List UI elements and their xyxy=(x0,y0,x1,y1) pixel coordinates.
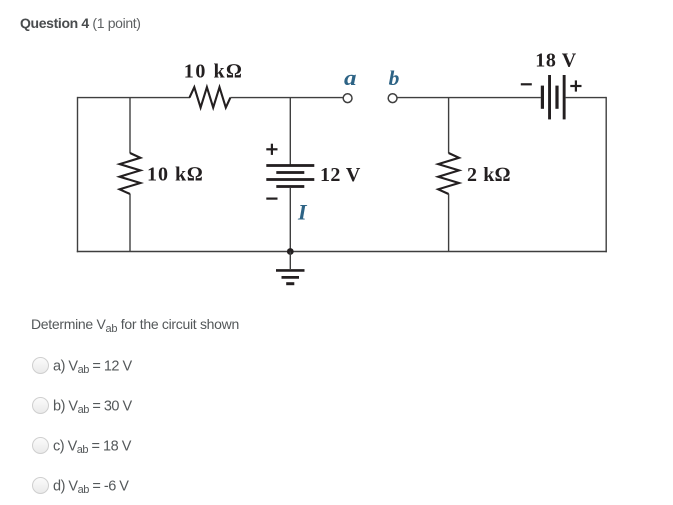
wire 2kOhm branch upper xyxy=(448,98,450,154)
svg-text:12 V: 12 V xyxy=(320,164,361,186)
resistor 10 kOhm (left branch, vertical) xyxy=(120,153,141,194)
resistor 2 kOhm (vertical) xyxy=(438,153,459,194)
node b label xyxy=(389,66,400,90)
battery 18 V (horizontal, four plates) xyxy=(541,75,566,119)
resistor 10 kOhm (top, horizontal) xyxy=(190,87,231,107)
wire 12V battery branch lower xyxy=(289,188,291,252)
wire right rail xyxy=(605,97,607,252)
node a label xyxy=(344,65,357,90)
node b terminal (open circle) xyxy=(388,94,397,103)
wire from 18V battery to top-right corner xyxy=(566,97,607,99)
wire ground stub xyxy=(289,252,291,270)
current label I xyxy=(297,200,308,225)
wire inner-left branch upper xyxy=(129,98,131,154)
svg-text:18 V: 18 V xyxy=(535,50,576,72)
value label 12 V xyxy=(320,164,361,186)
value label 10 kOhm (left resistor) xyxy=(147,164,203,186)
wire from top resistor to node a xyxy=(230,97,343,99)
wire left rail xyxy=(77,97,79,252)
value label 2 kOhm xyxy=(467,164,511,186)
svg-text:10 kΩ: 10 kΩ xyxy=(184,61,243,83)
ground symbol xyxy=(276,270,305,283)
value label 18 V xyxy=(535,50,576,72)
svg-text:2 kΩ: 2 kΩ xyxy=(467,164,511,186)
wire from node b to 18V battery xyxy=(397,97,541,99)
svg-text:a: a xyxy=(344,65,357,90)
battery 12 V (vertical, four plates) xyxy=(266,164,314,188)
battery 18V plus sign xyxy=(570,80,581,91)
battery 12V minus sign xyxy=(266,198,277,200)
battery 18V minus sign xyxy=(521,83,532,85)
svg-text:10 kΩ: 10 kΩ xyxy=(147,164,203,186)
wire 2kOhm branch lower xyxy=(448,194,450,252)
svg-text:I: I xyxy=(297,200,308,225)
junction dot at ground node xyxy=(287,248,294,255)
value label 10 kOhm (top resistor) xyxy=(184,61,243,83)
wire 12V battery branch upper xyxy=(289,98,291,166)
wire inner-left branch lower xyxy=(129,194,131,252)
wire top rail left segment xyxy=(78,97,191,99)
svg-text:b: b xyxy=(389,66,400,90)
battery 12V plus sign xyxy=(266,144,277,155)
node a terminal (open circle) xyxy=(343,94,352,103)
wire bottom rail xyxy=(77,251,607,253)
